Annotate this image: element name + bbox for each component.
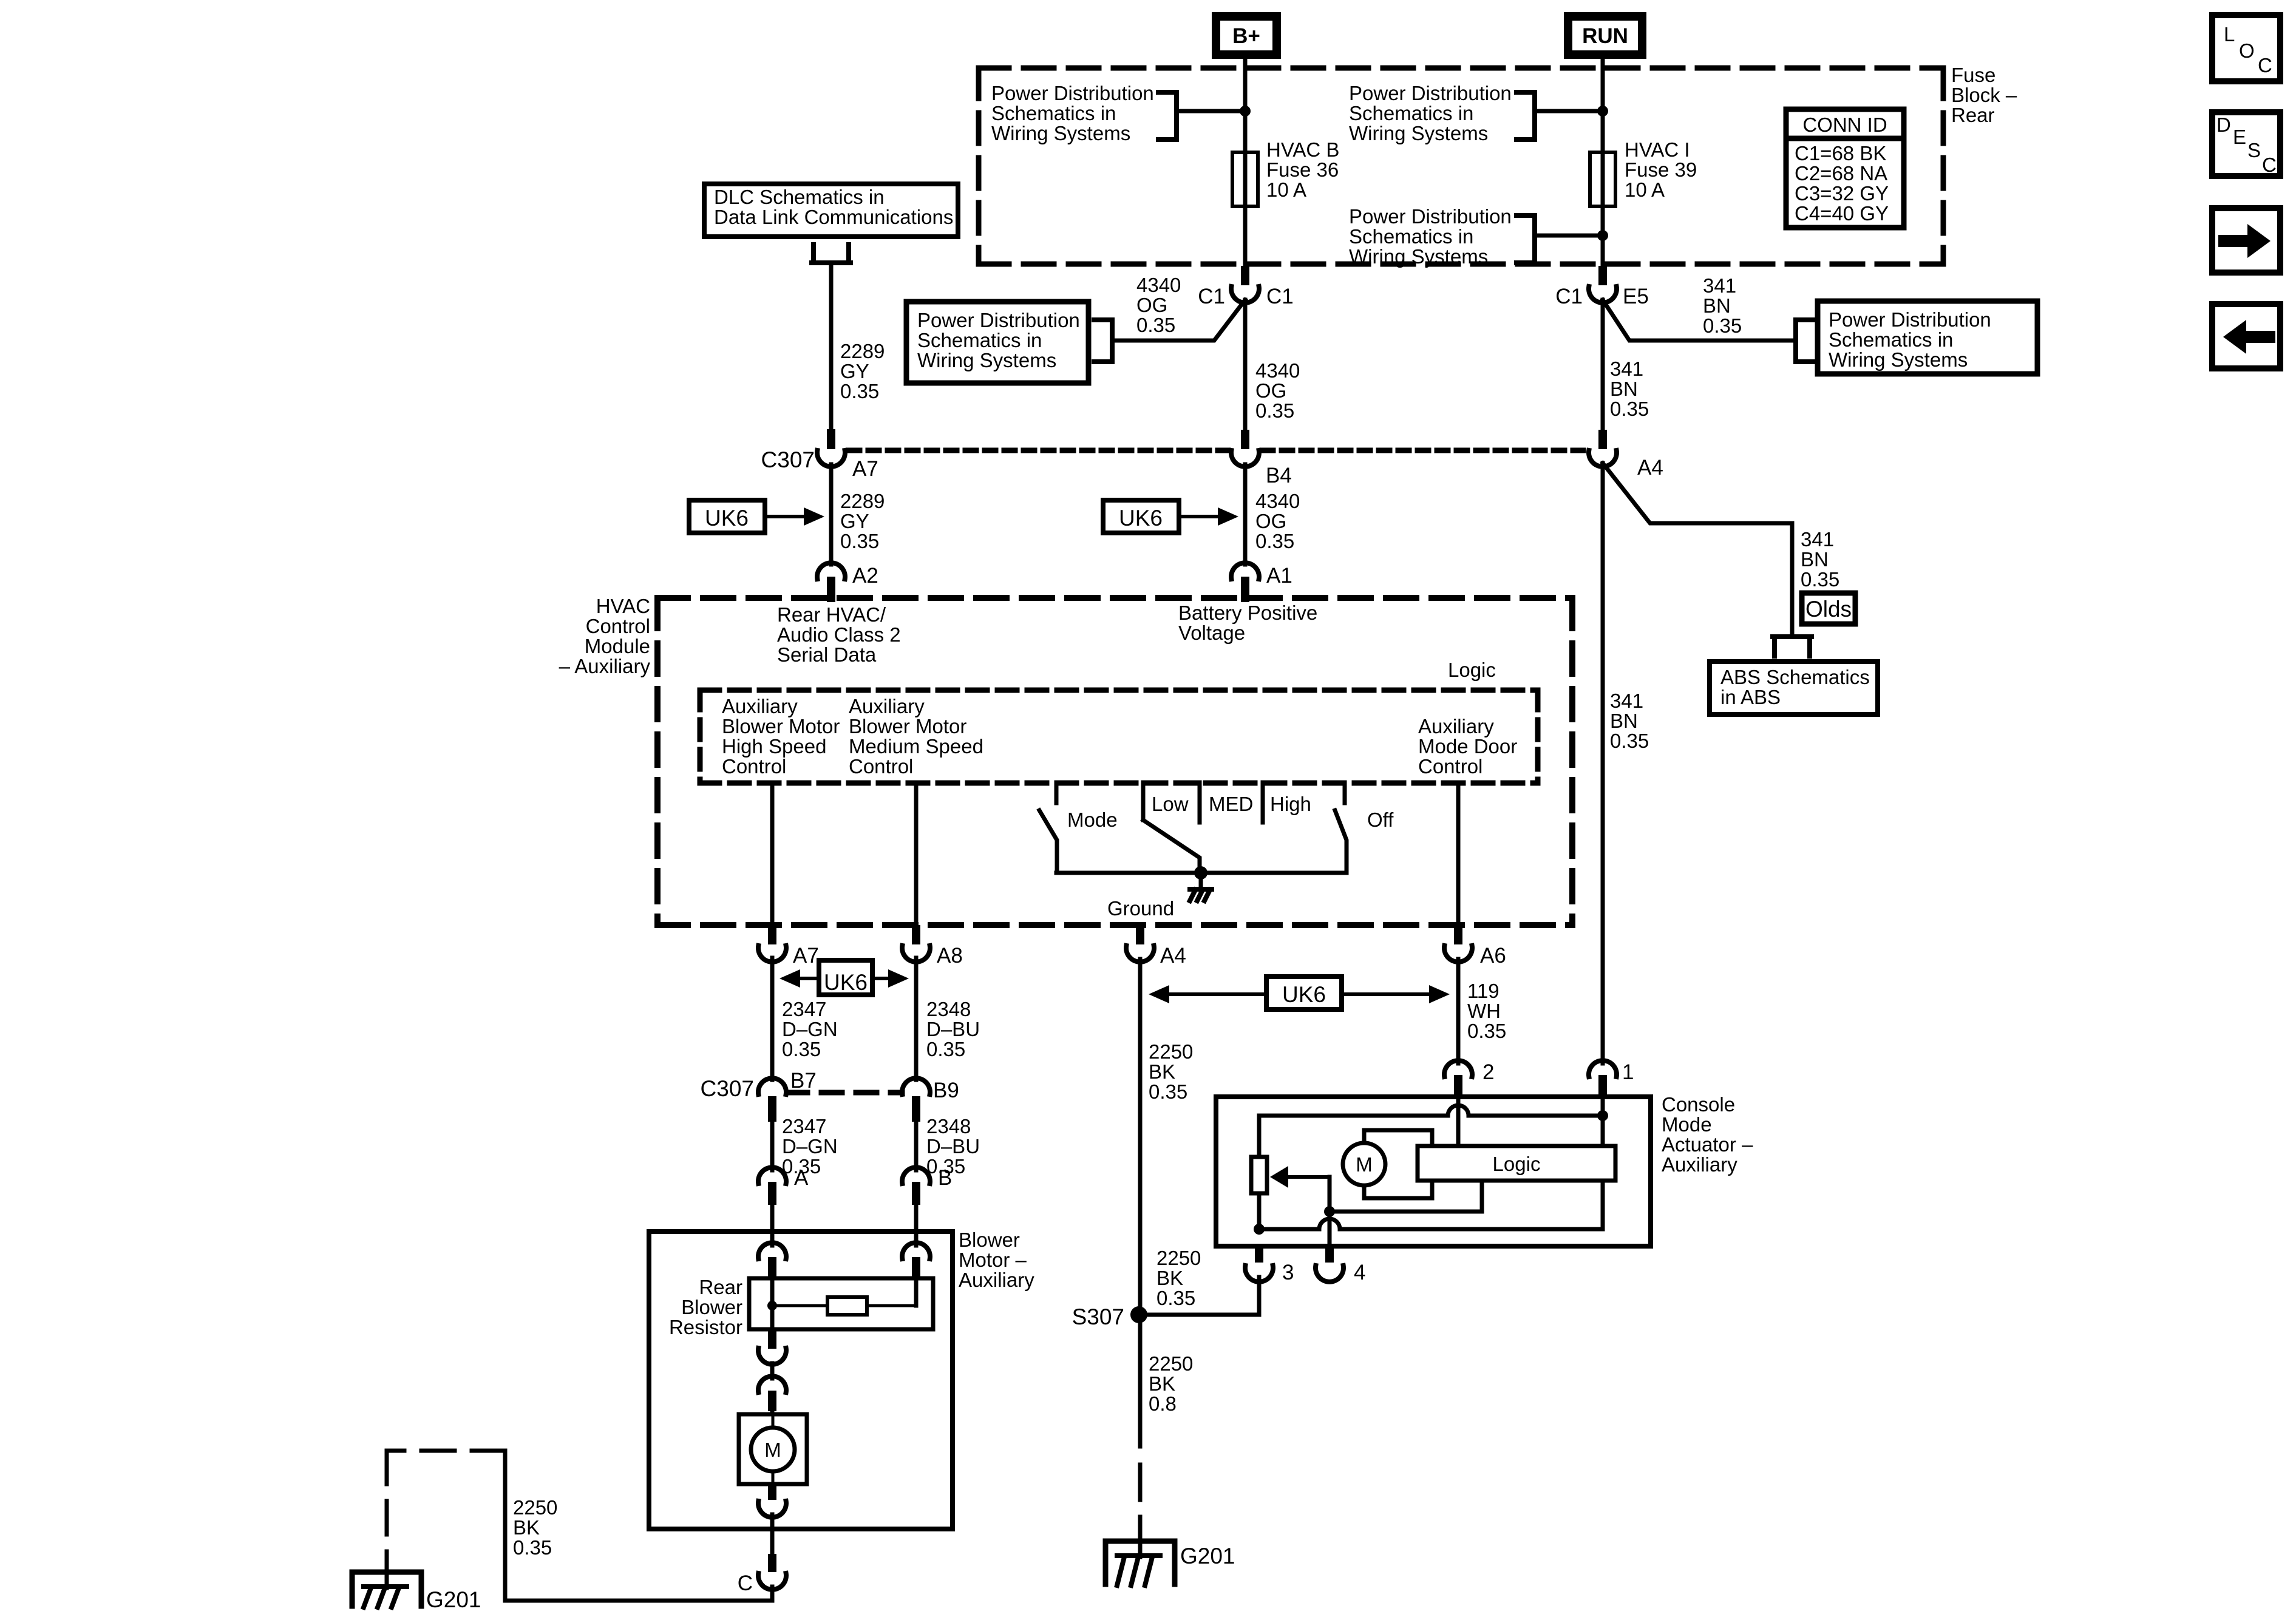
CONN ID table [1786, 109, 1904, 228]
svg-text:0.35: 0.35 [926, 1038, 965, 1060]
svg-text:WH: WH [1467, 1000, 1501, 1022]
arrow UK6 to B+ wire [1179, 515, 1220, 518]
svg-text:G201: G201 [426, 1587, 481, 1612]
svg-text:Wiring Systems: Wiring Systems [917, 349, 1056, 371]
svg-text:Audio Class 2: Audio Class 2 [777, 623, 901, 646]
console pin 4 cup [1316, 1266, 1343, 1282]
resistor element [827, 1297, 867, 1315]
wire A7 to B7 [770, 958, 775, 1080]
svg-text:Console: Console [1662, 1093, 1735, 1116]
wire to motor [770, 1411, 775, 1414]
svg-text:E5: E5 [1623, 285, 1649, 308]
dashed ground run to G201 [387, 1449, 505, 1453]
svg-text:BN: BN [1801, 548, 1829, 571]
svg-text:4340: 4340 [1136, 274, 1181, 296]
option UK6 box 1 [689, 500, 765, 533]
blower pin A wire [770, 1233, 775, 1246]
svg-text:Voltage: Voltage [1178, 622, 1245, 644]
svg-text:2250: 2250 [1156, 1247, 1201, 1269]
svg-text:Blower: Blower [959, 1229, 1020, 1251]
connector C1 blade (B+) [1241, 266, 1249, 285]
svg-text:Wiring Systems: Wiring Systems [991, 122, 1130, 144]
module inner logic dashed box [700, 688, 1538, 693]
blower pin B cap [902, 1242, 930, 1259]
svg-text:D–BU: D–BU [926, 1135, 980, 1158]
svg-text:DLC Schematics in: DLC Schematics in [714, 186, 885, 208]
svg-text:S: S [2247, 139, 2261, 161]
fuse block - rear dashed border [979, 66, 1943, 71]
svg-text:Ground: Ground [1107, 897, 1174, 920]
connector B blade [912, 1182, 920, 1205]
svg-text:Auxiliary: Auxiliary [1418, 715, 1494, 737]
wire S307 to console pin 3 [1140, 1277, 1259, 1315]
svg-text:Data Link Communications: Data Link Communications [714, 206, 953, 228]
wire A8 to B9 [914, 958, 919, 1080]
svg-text:Power Distribution: Power Distribution [1349, 82, 1512, 104]
console pin 1 cap [1589, 1060, 1617, 1077]
svg-text:2250: 2250 [1149, 1352, 1193, 1375]
svg-text:Auxiliary: Auxiliary [959, 1269, 1034, 1291]
wire A4 diagonal to ABS branch [1603, 463, 1792, 636]
console motor circle [1343, 1143, 1385, 1185]
svg-text:D–GN: D–GN [782, 1018, 838, 1040]
option Olds box [1802, 593, 1855, 624]
svg-text:Wiring Systems: Wiring Systems [1349, 122, 1488, 144]
sidebar LOC box [2212, 15, 2280, 81]
svg-text:C1: C1 [1266, 285, 1294, 308]
svg-text:Logic: Logic [1493, 1153, 1541, 1175]
svg-text:341: 341 [1801, 528, 1834, 551]
svg-text:Off: Off [1367, 808, 1394, 831]
reference Power Distribution box (right) [1818, 301, 2037, 374]
fuse F39 HVAC I [1590, 152, 1615, 206]
svg-text:OG: OG [1255, 379, 1286, 402]
module internal ground symbol [1199, 873, 1203, 889]
inline connector wire [770, 1363, 775, 1378]
svg-text:C3=32 GY: C3=32 GY [1795, 182, 1889, 205]
C307 connector dotted line [849, 448, 1228, 453]
connector pin A7 cup [758, 946, 786, 962]
svg-text:HVAC: HVAC [596, 595, 650, 617]
hop pin2 over horizontal1 [1448, 1105, 1469, 1116]
pot to bottom junction [1257, 1193, 1262, 1229]
wire C307 to A2 [829, 464, 834, 564]
svg-text:0.8: 0.8 [1149, 1392, 1177, 1415]
svg-text:3: 3 [1282, 1261, 1294, 1284]
svg-text:0.35: 0.35 [840, 530, 879, 552]
svg-text:2289: 2289 [840, 340, 885, 362]
switch common bar [1056, 871, 1347, 875]
svg-text:– Auxiliary: – Auxiliary [559, 655, 651, 677]
blower motor M box [739, 1414, 807, 1484]
svg-text:OG: OG [1255, 510, 1286, 532]
connector B7 blade [768, 1096, 776, 1122]
reference Power Distribution box (left mid) [906, 302, 1089, 383]
svg-text:D–GN: D–GN [782, 1135, 838, 1158]
connector C cup [758, 1573, 786, 1590]
svg-text:HVAC I: HVAC I [1625, 138, 1690, 161]
svg-text:A4: A4 [1637, 456, 1663, 480]
svg-text:0.35: 0.35 [840, 380, 879, 402]
bracket to RUN wire upper [1517, 92, 1535, 140]
console pin1 wire inside [1601, 1098, 1605, 1146]
svg-text:BN: BN [1703, 294, 1731, 317]
connector C307 cup (DLC) [817, 450, 845, 467]
wire B to blower box [914, 1205, 919, 1233]
svg-text:MED: MED [1209, 793, 1253, 815]
svg-text:2250: 2250 [1149, 1040, 1193, 1063]
connector pin A8 blade [912, 925, 920, 944]
C307 row2 dashed line [787, 1090, 902, 1096]
junction dot wire4 [1324, 1206, 1335, 1217]
svg-text:C307: C307 [701, 1076, 754, 1101]
connector B4 blade [1241, 430, 1249, 449]
motor pin blade [768, 1484, 776, 1500]
svg-text:0.35: 0.35 [513, 1536, 552, 1559]
junction dot S307 [1130, 1306, 1147, 1323]
svg-text:Control: Control [722, 755, 786, 778]
svg-text:UK6: UK6 [824, 970, 868, 995]
junction dot resistor [767, 1301, 777, 1310]
svg-text:D: D [2216, 114, 2231, 136]
svg-text:4340: 4340 [1255, 359, 1300, 382]
inline connector cup [758, 1348, 786, 1364]
connector pin A4 blade [1136, 925, 1144, 944]
dashed wire to G201 right [1138, 1465, 1143, 1537]
svg-text:OG: OG [1136, 294, 1167, 316]
svg-text:Power Distribution: Power Distribution [1349, 205, 1512, 228]
sidebar DESC box [2212, 112, 2280, 176]
svg-text:Auxiliary: Auxiliary [722, 695, 798, 717]
svg-text:Auxiliary: Auxiliary [1662, 1153, 1737, 1176]
wire E5 diagonal to power dist ref [1603, 300, 1793, 341]
console pin 1 blade [1598, 1075, 1607, 1098]
page fork to ABS [1773, 637, 1812, 656]
wire motor to C [770, 1514, 775, 1554]
svg-text:CONN ID: CONN ID [1802, 114, 1887, 136]
svg-text:10 A: 10 A [1266, 178, 1306, 201]
svg-text:Motor –: Motor – [959, 1249, 1027, 1271]
svg-text:Auxiliary: Auxiliary [849, 695, 925, 717]
blower pin B blade [912, 1257, 920, 1281]
connector B7 cap [758, 1078, 786, 1094]
svg-text:G201: G201 [1180, 1544, 1235, 1568]
console mode actuator box [1216, 1097, 1651, 1246]
svg-text:C4=40 GY: C4=40 GY [1795, 202, 1889, 225]
resistor wiring [772, 1304, 827, 1307]
svg-text:HVAC B: HVAC B [1266, 138, 1339, 161]
svg-text:Control: Control [1418, 755, 1483, 778]
svg-text:C: C [2262, 154, 2277, 176]
svg-text:A7: A7 [793, 944, 819, 968]
junction dot on RUN wire upper [1597, 106, 1608, 117]
svg-text:Module: Module [585, 635, 650, 657]
HVAC control module dashed box [657, 595, 1572, 601]
hop wire4 over bottom horizontal [1319, 1219, 1340, 1229]
connector A1 cap [1231, 563, 1259, 579]
svg-text:B: B [938, 1166, 952, 1190]
blower pin B wire [914, 1233, 919, 1246]
connector C blade [768, 1554, 776, 1572]
connector B cap [902, 1167, 930, 1184]
svg-text:C2=68 NA: C2=68 NA [1795, 162, 1887, 185]
svg-text:4: 4 [1354, 1261, 1365, 1284]
svg-text:C307: C307 [761, 447, 815, 472]
off switch blade [1335, 810, 1347, 873]
svg-text:C1=68 BK: C1=68 BK [1795, 142, 1886, 164]
svg-text:BK: BK [1149, 1060, 1175, 1083]
console bottom horizontal [1259, 1227, 1319, 1232]
svg-text:Blower Motor: Blower Motor [849, 715, 966, 737]
svg-text:GY: GY [840, 360, 869, 382]
svg-text:0.35: 0.35 [1703, 314, 1742, 337]
svg-text:Wiring Systems: Wiring Systems [1349, 245, 1488, 268]
svg-text:2347: 2347 [782, 998, 826, 1020]
wire 4 vertical [1328, 1177, 1332, 1246]
reference ABS Schematics box [1710, 662, 1878, 714]
console pin 4 blade [1325, 1244, 1334, 1263]
wire A4 down to console pin 1 [1601, 463, 1605, 1063]
arrow UK6 to A7 wire [798, 977, 819, 980]
svg-text:10 A: 10 A [1625, 178, 1665, 201]
svg-text:1: 1 [1622, 1060, 1634, 1084]
svg-text:D–BU: D–BU [926, 1018, 980, 1040]
svg-text:UK6: UK6 [705, 506, 749, 531]
svg-text:Low: Low [1152, 793, 1189, 815]
blower motor M circle [751, 1428, 795, 1471]
connector pin A8 cup [902, 946, 930, 962]
connector A2 blade [827, 577, 835, 602]
svg-text:Serial Data: Serial Data [777, 643, 877, 666]
svg-text:Schematics in: Schematics in [1349, 225, 1473, 248]
connector pin A7 blade [768, 925, 776, 944]
inline connector blade2 [768, 1391, 776, 1411]
svg-text:M: M [1356, 1153, 1373, 1176]
svg-text:Rear: Rear [699, 1276, 742, 1298]
svg-text:A7: A7 [852, 457, 878, 481]
wire A6 down [1456, 959, 1461, 1063]
wire C to ground run [505, 1451, 772, 1601]
wire E5 to A4 [1601, 300, 1605, 430]
connector A1 blade [1241, 577, 1249, 602]
svg-text:0.35: 0.35 [1149, 1080, 1187, 1103]
connector pin A4 cup [1126, 946, 1154, 962]
svg-text:2347: 2347 [782, 1115, 826, 1137]
svg-text:0.35: 0.35 [1801, 568, 1839, 591]
svg-text:2348: 2348 [926, 998, 971, 1020]
svg-text:341: 341 [1610, 690, 1643, 712]
console pin 3 cup [1245, 1266, 1273, 1282]
svg-text:Blower: Blower [681, 1296, 742, 1318]
bracket to RUN wire lower [1517, 215, 1535, 263]
connector pin A6 blade [1454, 925, 1462, 944]
svg-text:B+: B+ [1232, 24, 1260, 48]
wire DLC down [829, 263, 834, 429]
MED contact bar [1198, 782, 1202, 822]
wire module stub A6 [1456, 783, 1461, 925]
svg-text:B9: B9 [933, 1079, 959, 1102]
option UK6 box 2 [1103, 500, 1179, 533]
wire A to blower box [770, 1205, 775, 1233]
svg-text:Schematics in: Schematics in [917, 329, 1042, 351]
svg-text:E: E [2233, 126, 2246, 148]
svg-text:BK: BK [1149, 1372, 1175, 1395]
wire A4 below S307 [1138, 1315, 1143, 1446]
svg-text:A2: A2 [852, 564, 878, 588]
blower motor auxiliary box [649, 1232, 953, 1529]
speed selector blade [1143, 820, 1200, 873]
reference DLC Schematics box [704, 184, 958, 237]
wire C1 diagonal to power dist ref [1115, 300, 1245, 341]
wire A4 pin down [1138, 959, 1143, 1315]
connector B9 blade [912, 1096, 920, 1122]
svg-text:BK: BK [513, 1516, 540, 1539]
svg-text:Control: Control [849, 755, 913, 778]
wire B into resistor [914, 1281, 919, 1306]
junction dot pot bottom [1254, 1224, 1265, 1235]
wire module stub A8 [914, 783, 919, 925]
svg-text:A4: A4 [1160, 944, 1186, 968]
connector B9 cap [902, 1078, 930, 1094]
svg-text:2289: 2289 [840, 490, 885, 512]
junction dot on B+ wire [1240, 106, 1251, 117]
arrow UK6 to A8 wire [872, 977, 891, 980]
svg-text:in ABS: in ABS [1720, 686, 1781, 708]
option UK6 box 3 [1266, 977, 1342, 1009]
bracket to B+ wire [1158, 92, 1177, 140]
svg-text:Mode Door: Mode Door [1418, 735, 1517, 758]
svg-text:Logic: Logic [1448, 659, 1496, 681]
connector B4 cup [1231, 450, 1259, 467]
fuse F36 HVAC B [1232, 152, 1258, 206]
svg-text:0.35: 0.35 [1255, 530, 1294, 552]
potentiometer [1251, 1157, 1267, 1193]
svg-text:Resistor: Resistor [669, 1316, 742, 1338]
svg-text:0.35: 0.35 [1610, 398, 1649, 420]
svg-text:Power Distribution: Power Distribution [917, 309, 1080, 331]
arrow UK6 to A6 wire [1342, 992, 1432, 996]
sidebar next arrow box [2212, 208, 2280, 273]
motor pin cup [758, 1501, 786, 1517]
svg-text:Battery Positive: Battery Positive [1178, 602, 1317, 624]
connector A blade [768, 1182, 776, 1205]
svg-text:B4: B4 [1266, 464, 1292, 487]
svg-text:M: M [764, 1439, 781, 1461]
svg-text:UK6: UK6 [1119, 506, 1163, 531]
connector C307 blade A7-side [827, 429, 835, 449]
svg-text:L: L [2224, 23, 2235, 46]
svg-text:BN: BN [1610, 378, 1638, 400]
ground G201 left [352, 1572, 421, 1606]
junction dot pin1 wire [1597, 1110, 1608, 1121]
arrow UK6 to DLC wire [765, 515, 806, 518]
wire B4 to A1 [1243, 464, 1248, 564]
connector A4 cup (C307) [1589, 450, 1617, 467]
svg-text:Wiring Systems: Wiring Systems [1829, 348, 1968, 371]
low contact stub [1141, 782, 1146, 820]
svg-text:Schematics in: Schematics in [1829, 328, 1953, 351]
svg-text:A6: A6 [1480, 944, 1506, 968]
svg-text:0.35: 0.35 [1136, 314, 1175, 336]
svg-text:GY: GY [840, 510, 869, 532]
wire C1 to B4 [1243, 300, 1248, 430]
svg-text:Blower Motor: Blower Motor [722, 715, 840, 737]
console pin2 wire inside [1456, 1098, 1461, 1146]
svg-text:0.35: 0.35 [1467, 1020, 1506, 1042]
svg-text:0.35: 0.35 [1255, 399, 1294, 422]
svg-text:2348: 2348 [926, 1115, 971, 1137]
wire RUN vertical [1601, 59, 1605, 267]
ground G201 right [1106, 1541, 1175, 1584]
svg-text:A1: A1 [1266, 564, 1292, 588]
svg-text:Actuator –: Actuator – [1662, 1133, 1753, 1156]
junction dot switch common [1194, 866, 1207, 880]
console internal horizontal 2 [1330, 1210, 1482, 1214]
svg-text:2: 2 [1483, 1060, 1494, 1084]
wire B+ vertical [1243, 59, 1248, 267]
svg-text:Rear: Rear [1951, 104, 1995, 126]
bracket power dist left [1094, 320, 1112, 362]
svg-text:A8: A8 [937, 944, 963, 968]
logic box [1418, 1146, 1615, 1181]
console internal horizontal 1 [1259, 1114, 1448, 1118]
wire B7 to A [770, 1122, 775, 1170]
svg-text:Block –: Block – [1951, 84, 2017, 106]
svg-text:BK: BK [1156, 1267, 1183, 1289]
console pin 2 cap [1444, 1060, 1472, 1077]
power terminal RUN box [1568, 16, 1642, 55]
svg-text:O: O [2239, 39, 2255, 62]
power terminal B+ box [1216, 16, 1277, 55]
svg-text:Power Distribution: Power Distribution [1829, 308, 1991, 331]
svg-text:2250: 2250 [513, 1496, 557, 1519]
svg-text:Schematics in: Schematics in [1349, 102, 1473, 124]
high contact bar [1261, 782, 1265, 822]
svg-text:UK6: UK6 [1282, 982, 1326, 1007]
svg-text:Fuse 39: Fuse 39 [1625, 158, 1697, 181]
svg-text:Medium Speed: Medium Speed [849, 735, 983, 758]
svg-text:BN: BN [1610, 710, 1638, 732]
svg-text:ABS Schematics: ABS Schematics [1720, 666, 1870, 688]
svg-text:Control: Control [586, 615, 650, 637]
console pin 3 blade [1255, 1244, 1263, 1263]
inline connector cap [758, 1376, 786, 1392]
arrow UK6 to A4 wire [1167, 992, 1266, 996]
console motor rect [1364, 1130, 1432, 1198]
blower pin A blade [768, 1257, 776, 1281]
connector A cap [758, 1167, 786, 1184]
arrow to potentiometer [1286, 1175, 1330, 1179]
svg-text:Mode: Mode [1662, 1113, 1712, 1136]
svg-text:119: 119 [1467, 980, 1500, 1002]
svg-text:High: High [1270, 793, 1311, 815]
connector A4 blade (C307) [1598, 430, 1607, 449]
svg-text:Rear HVAC/: Rear HVAC/ [777, 603, 886, 626]
svg-text:341: 341 [1703, 274, 1736, 297]
svg-text:S307: S307 [1072, 1304, 1124, 1329]
inline connector below resistor blade1 [768, 1331, 776, 1349]
console left vertical to pot [1257, 1116, 1262, 1157]
svg-text:C1: C1 [1555, 285, 1583, 308]
svg-text:4340: 4340 [1255, 490, 1300, 512]
console pin 2 blade [1454, 1075, 1462, 1098]
svg-text:0.35: 0.35 [1156, 1287, 1195, 1309]
svg-text:Schematics in: Schematics in [991, 102, 1116, 124]
svg-text:341: 341 [1610, 358, 1643, 380]
mode switch contact stub [1055, 782, 1059, 803]
svg-text:Mode: Mode [1067, 808, 1118, 831]
svg-text:A: A [794, 1166, 809, 1190]
